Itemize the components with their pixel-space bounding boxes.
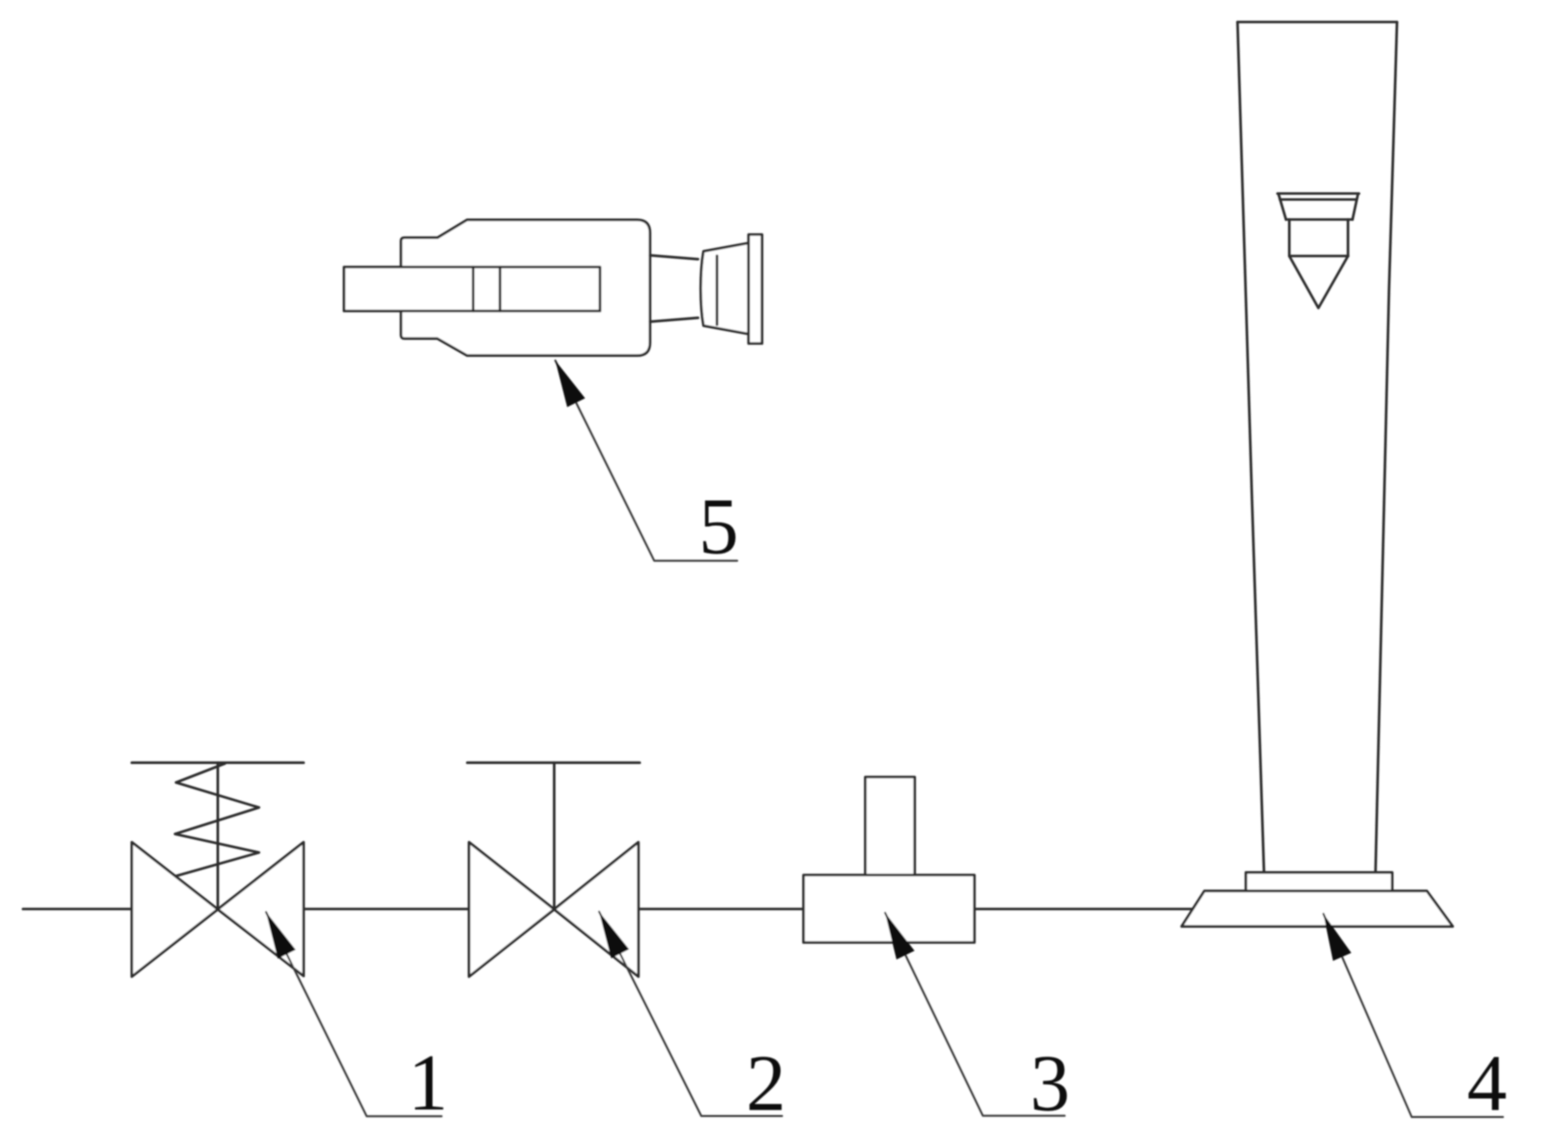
column 4: collar plate: [1246, 872, 1392, 891]
svg-text:4: 4: [1467, 1040, 1507, 1128]
wire: pipe between valve 1 and valve 2: [304, 908, 469, 911]
valve 2: handle bar: [467, 761, 639, 764]
camera 5: lens neck bottom: [650, 318, 698, 322]
column 4: float cone tip: [1289, 256, 1348, 308]
arrowhead for label 3: [885, 913, 914, 960]
leader line for label 1: [266, 912, 442, 1116]
sensor 3: body block: [804, 875, 975, 943]
wire: inlet pipe segment: [23, 908, 132, 911]
svg-text:2: 2: [746, 1040, 786, 1128]
camera 5: body: [401, 220, 650, 356]
camera 5: viewfinder tube: [344, 267, 600, 311]
camera 5: lens bell seam: [716, 256, 719, 325]
leader line for label 2: [599, 912, 782, 1116]
camera 5: lens neck top: [650, 255, 698, 259]
leader line for label 4: [1323, 914, 1503, 1117]
valve 2: stem: [553, 763, 556, 910]
camera 5: lens bell: [701, 243, 749, 334]
arrowhead for label 1: [266, 912, 296, 959]
camera 5: lens face plate: [749, 235, 762, 344]
valve 2: bowtie body: [469, 842, 638, 976]
relief valve 1: bowtie body: [132, 842, 304, 976]
wire: pipe between valve 2 and sensor 3: [638, 908, 803, 911]
arrowhead for label 2: [599, 912, 629, 959]
leader line for label 5: [555, 361, 737, 561]
svg-text:3: 3: [1030, 1040, 1070, 1128]
relief valve 1: top plate line: [132, 761, 304, 764]
column 4: base pedestal: [1182, 891, 1453, 927]
svg-text:1: 1: [408, 1040, 448, 1128]
sensor 3: stem: [865, 777, 914, 875]
relief valve 1: spring: [175, 764, 259, 877]
svg-text:5: 5: [699, 483, 739, 571]
leader line for label 3: [885, 913, 1065, 1116]
column 4: float body: [1289, 220, 1348, 257]
column 4: tube outline: [1238, 22, 1398, 872]
column 4: float cap: [1278, 194, 1360, 220]
arrowhead for label 4: [1323, 914, 1351, 961]
relief valve 1: stem: [217, 763, 220, 910]
camera 5: viewfinder tube dividers: [472, 267, 475, 311]
wire: pipe between sensor 3 and column 4: [974, 908, 1192, 911]
arrowhead for label 5: [555, 361, 585, 408]
